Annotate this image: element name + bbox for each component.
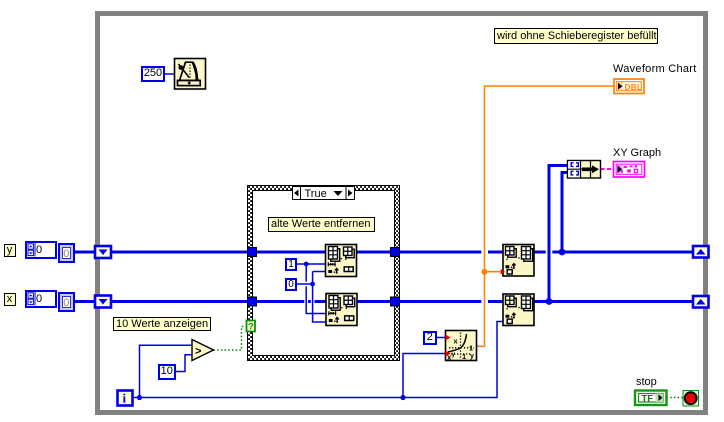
wire orange DBL chart [477, 86, 614, 346]
shift register right y (up arrow) [693, 246, 709, 258]
case selector terminal ? [247, 321, 256, 333]
case tunnel left x [248, 297, 257, 306]
junction dot i-wire right [400, 395, 405, 400]
greater? node [192, 340, 214, 361]
wire constant 1 to array subset index inputs [297, 264, 327, 314]
shift register right x (up arrow) [693, 296, 709, 308]
junction dot orange [482, 269, 488, 275]
wire 10 to greater node [176, 355, 193, 372]
constant 1 [285, 258, 297, 271]
shift register left y (down arrow) [95, 246, 111, 258]
case tunnel right y [391, 248, 400, 257]
input arrows red [446, 335, 451, 341]
svg-text:?: ? [248, 322, 254, 333]
bundle node [568, 161, 601, 179]
insert into array G2 (bottom right) [503, 294, 534, 326]
svg-text:1: 1 [462, 352, 466, 361]
case selector label True [292, 186, 356, 200]
wire 250 to wait node [164, 73, 175, 75]
wire constant 0 to array subset length inputs [297, 272, 327, 323]
label free comment top [494, 28, 658, 44]
control y (array index + element) [25, 241, 57, 259]
control y label [4, 244, 16, 258]
control x (array index + element) [25, 290, 57, 308]
loop condition terminal (stop sign) [683, 391, 699, 407]
constant 0 [285, 278, 297, 291]
XY graph terminal [614, 162, 645, 178]
wire boolean greater to case selector [214, 327, 247, 351]
insert into array G1 (top right) [501, 245, 535, 277]
wire i branch to power node [403, 354, 445, 398]
constant 10 [158, 364, 177, 380]
iteration terminal i [118, 391, 133, 406]
control x label [4, 293, 16, 307]
junction dot i-wire left [137, 395, 142, 400]
svg-text:DBL: DBL [625, 83, 643, 92]
waveform chart terminal DBL [614, 79, 644, 94]
wire vertical from x-array junction to bundle input1 [549, 166, 568, 302]
array subset F1 (top, in case) [326, 245, 357, 277]
case tunnel left y [248, 248, 257, 257]
wire x-array horizontal [74, 300, 693, 303]
wire 2 to power node [436, 337, 445, 339]
junction dot constant1 wire [304, 262, 309, 267]
wire cluster bundle to XY graph [601, 168, 614, 170]
svg-text:i: i [123, 391, 127, 406]
array subset F2 (bottom, in case) [326, 294, 357, 326]
wire y-array horizontal [74, 251, 693, 254]
label 10 Werte anzeigen [113, 317, 211, 332]
wire boolean stop to loop condition [667, 397, 684, 399]
text stop [636, 376, 657, 388]
text Waveform Chart [613, 63, 697, 75]
svg-text:1: 1 [469, 344, 473, 353]
svg-text:y: y [452, 351, 456, 358]
svg-text:TF: TF [642, 394, 654, 405]
case structure True border [247, 185, 400, 361]
coercion dot red [501, 269, 506, 274]
svg-text:>: > [195, 346, 201, 358]
label alte Werte entfernen [268, 217, 375, 232]
wait until next ms multiple U1 (metronome) [175, 59, 206, 90]
junction dot x-array [546, 298, 553, 305]
wire orange branch to insert array A [485, 271, 501, 273]
junction dot y-array [559, 249, 566, 256]
text XY Graph [613, 147, 661, 159]
junction dot constant0 wire [310, 282, 315, 287]
power of x node (x^y) [446, 331, 477, 363]
wire i to greater node [140, 345, 193, 397]
wire vertical from y-array junction to bundle input2 [562, 173, 568, 253]
case tunnel right x [391, 297, 400, 306]
shift register left x (down arrow) [95, 296, 111, 308]
wire i iteration bottom [133, 322, 507, 398]
stop boolean terminal TF [635, 391, 667, 406]
svg-text:y: y [470, 353, 474, 360]
constant 2 [423, 331, 437, 346]
constant 250 [141, 66, 165, 82]
